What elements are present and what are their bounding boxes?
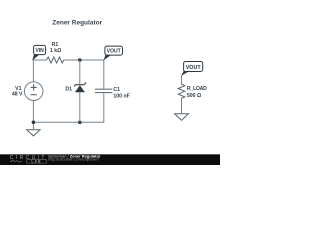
wire left vertical (corner to V1 top) <box>32 60 34 82</box>
capacitor C1 <box>95 89 112 92</box>
ground right <box>175 114 189 121</box>
wire C1 branch bottom <box>103 93 105 123</box>
svg-text:VIN: VIN <box>35 48 44 54</box>
footer bar <box>0 155 220 165</box>
svg-text:100 nF: 100 nF <box>113 94 129 100</box>
svg-text:1 kΩ: 1 kΩ <box>50 48 61 54</box>
wire D1 branch bottom <box>79 92 81 122</box>
svg-text:http://circuitlab.com/c/qnswn7: http://circuitlab.com/c/qnswn7 <box>48 157 99 162</box>
svg-text:Zener Regulator: Zener Regulator <box>52 20 102 27</box>
svg-text:500 Ω: 500 Ω <box>187 93 201 99</box>
wire R_LOAD branch top <box>181 76 183 85</box>
ground left <box>27 130 40 136</box>
svg-text:LAB: LAB <box>31 160 41 164</box>
flag VIN tail <box>32 54 39 61</box>
svg-text:C1: C1 <box>113 87 120 93</box>
flag VOUT left tail <box>104 55 111 61</box>
svg-text:D1: D1 <box>65 86 72 92</box>
wire bottom rail <box>33 121 103 123</box>
svg-text:R_LOAD: R_LOAD <box>187 86 207 92</box>
wire C1 branch top <box>103 60 105 90</box>
flag VIN box <box>34 45 46 54</box>
flag VOUT left box <box>105 46 123 55</box>
svg-text:48 V: 48 V <box>12 91 23 97</box>
wire D1 branch top <box>79 60 81 85</box>
zener diode D1 <box>74 83 86 87</box>
node junction dot bottom left (V1/rail) <box>32 121 36 125</box>
voltage source V1 <box>24 82 43 101</box>
wire R_LOAD branch bottom <box>181 98 183 114</box>
node junction dot top (D1 tap) <box>78 58 82 62</box>
logo LAB box <box>26 160 46 163</box>
footer bar top edge <box>0 153 220 156</box>
wire top rail right segment <box>64 59 104 61</box>
svg-text:VOUT: VOUT <box>186 65 202 71</box>
svg-text:VOUT: VOUT <box>107 49 121 55</box>
node junction dot bottom (D1/rail) <box>78 121 82 125</box>
svg-text:R1: R1 <box>52 42 59 48</box>
logo waveform <box>10 160 22 162</box>
flag VOUT right tail <box>181 71 189 76</box>
wire top rail left segment <box>33 59 46 61</box>
wire left vertical (V1 bottom to ground) <box>32 101 34 130</box>
resistor R1 <box>47 57 64 63</box>
flag VOUT right box <box>184 62 203 72</box>
resistor R_LOAD <box>178 84 185 98</box>
